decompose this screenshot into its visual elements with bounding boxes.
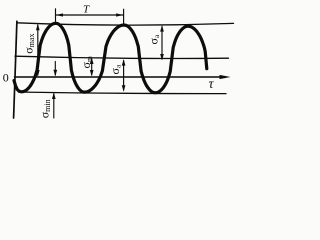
svg-text:σmax: σmax: [22, 34, 37, 54]
dim sigma_max down arrowhead: [36, 70, 40, 77]
svg-text:T: T: [83, 4, 90, 16]
dim sigma_m up arrowhead: [90, 58, 94, 64]
T dim left arrowhead: [56, 13, 63, 16]
tau axis zero line: [15, 76, 222, 78]
dim sigma_a upper shaft: [161, 27, 163, 60]
dim sigma_a lower down arrowhead: [122, 85, 126, 91]
sine wave: [14, 23, 207, 93]
T dim right arrowhead: [116, 13, 123, 16]
T dim right tick: [123, 9, 125, 23]
svg-text:σmin: σmin: [37, 99, 52, 118]
dim sigma_a lower up arrowhead: [122, 59, 126, 65]
sigma_max level line: [17, 23, 234, 25]
y-axis: [14, 21, 17, 118]
tau axis arrowhead: [220, 75, 231, 79]
T dim line: [56, 14, 123, 16]
svg-text:σa: σa: [147, 34, 162, 44]
dim sigma_max shaft: [37, 25, 39, 75]
dim sigma_min lower up arrowhead: [52, 92, 56, 99]
sigma_min level line: [24, 92, 226, 94]
svg-text:τ: τ: [209, 76, 215, 91]
dim sigma_a lower shaft: [123, 61, 125, 91]
dim sigma_m down arrowhead: [90, 70, 94, 76]
T dim left tick: [55, 9, 57, 22]
mean level line (sigma_m): [15, 56, 229, 58]
dim sigma_min upper arrow shaft: [54, 62, 56, 76]
dim sigma_m double arrow shaft: [91, 59, 93, 75]
svg-text:0: 0: [3, 70, 9, 84]
dim sigma_a upper down arrowhead: [160, 54, 164, 60]
dim sigma_min lower arrow shaft: [53, 94, 55, 118]
svg-text:σa: σa: [108, 64, 123, 74]
dim sigma_max up arrowhead: [36, 24, 40, 31]
dim sigma_min upper down arrowhead: [53, 70, 57, 77]
dim sigma_a upper up arrowhead: [160, 25, 164, 31]
